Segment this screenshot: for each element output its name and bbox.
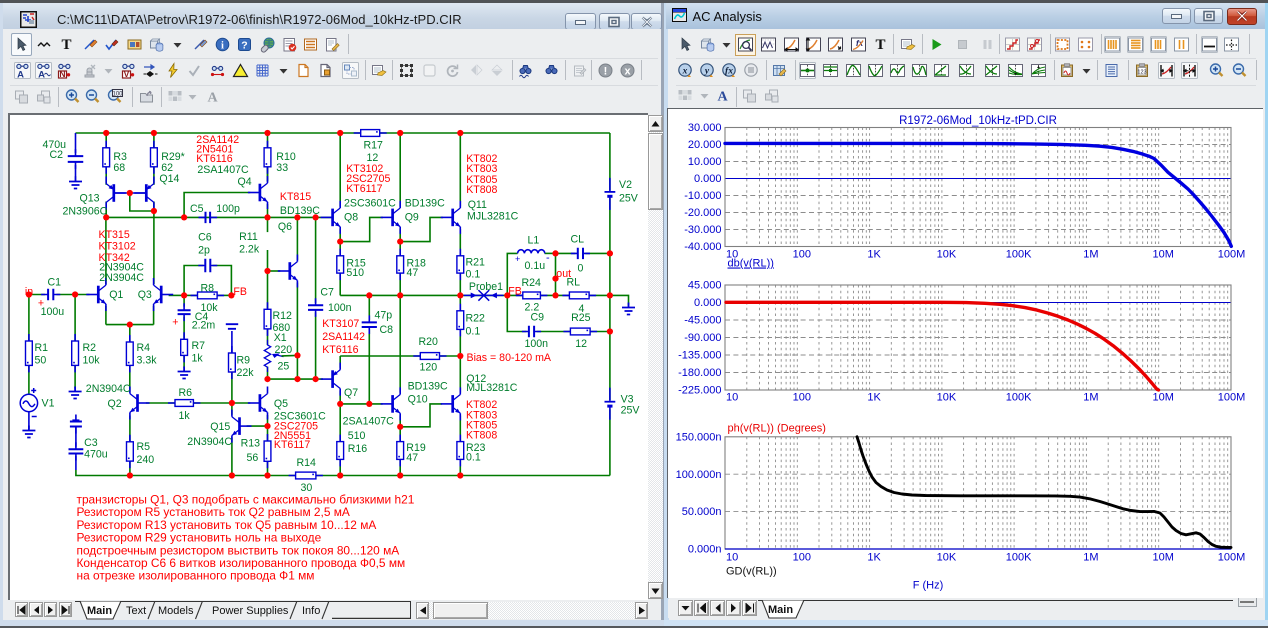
svg-text:0.1: 0.1 xyxy=(465,325,480,337)
svg-text:25V: 25V xyxy=(619,192,639,204)
junction dot (315.1,379.1) xyxy=(312,376,318,382)
wire C8 column xyxy=(368,295,370,320)
svg-text:0.1: 0.1 xyxy=(465,268,480,280)
svg-text:KT6117: KT6117 xyxy=(273,439,309,451)
svg-text:2.2k: 2.2k xyxy=(239,243,260,255)
junction dot (231.4,403) xyxy=(228,400,234,406)
junction dot (459.8,133) xyxy=(457,130,463,136)
transistor Q4 xyxy=(247,176,267,209)
wire bus node-379 xyxy=(267,378,323,380)
svg-text:47p: 47p xyxy=(374,309,392,321)
wire Q14 collector / Q3 collector column xyxy=(152,202,154,285)
junction dot (459.8,356) xyxy=(457,353,463,359)
junction dot (339.7,241.6) xyxy=(337,239,343,245)
junction dot (267,271) xyxy=(264,268,270,274)
svg-text:R14: R14 xyxy=(296,457,316,469)
svg-text:Probe1: Probe1 xyxy=(468,281,502,293)
svg-text:Q10: Q10 xyxy=(407,393,427,405)
svg-text:A: A xyxy=(17,69,24,79)
svg-text:+: + xyxy=(515,254,520,264)
svg-text:10K: 10K xyxy=(937,392,957,404)
svg-text:R24: R24 xyxy=(521,277,541,289)
capacitor C5 xyxy=(198,212,217,223)
svg-text:V2: V2 xyxy=(619,179,632,191)
capacitor C9 xyxy=(521,326,540,337)
wire C3 branch xyxy=(74,426,76,447)
capacitor C1 xyxy=(41,289,60,300)
svg-text:2SA1407C: 2SA1407C xyxy=(342,415,394,427)
svg-text:V: V xyxy=(124,69,130,79)
wire bottom rail xyxy=(75,470,609,476)
svg-text:X1: X1 xyxy=(273,332,286,344)
junction dot (231.4,475.5) xyxy=(228,472,234,478)
svg-text:100p: 100p xyxy=(216,203,240,215)
wire X1 bottom drop xyxy=(266,367,268,380)
svg-text:KT808: KT808 xyxy=(466,184,497,196)
svg-text:10K: 10K xyxy=(937,249,957,261)
wire R15 bottom xyxy=(339,273,341,295)
svg-text:50.000n: 50.000n xyxy=(682,506,722,518)
wire Q11 collector column xyxy=(459,133,461,206)
wire R2 column xyxy=(74,295,76,342)
svg-text:25V: 25V xyxy=(620,404,640,416)
svg-text:100M: 100M xyxy=(1218,552,1246,564)
svg-text:BD139C: BD139C xyxy=(404,197,444,209)
svg-text:R22: R22 xyxy=(465,312,485,324)
wire Q7 emitter riser xyxy=(339,356,341,368)
wire Q6 emitter to X1 wiper xyxy=(296,283,298,380)
svg-text:N: N xyxy=(60,69,66,79)
svg-text:2p: 2p xyxy=(198,244,210,256)
wire Q15 emitter drop xyxy=(230,438,232,476)
svg-text:1K: 1K xyxy=(867,552,881,564)
junction dot (368.8,403.9) xyxy=(366,401,372,407)
junction dot (183.6,295.4) xyxy=(181,292,187,298)
svg-text:KT3107: KT3107 xyxy=(322,318,359,330)
wire R10 column xyxy=(266,133,268,182)
wire Q12 emitter to R23 xyxy=(459,416,461,442)
svg-text:Q7: Q7 xyxy=(344,387,358,399)
svg-text:0.000: 0.000 xyxy=(694,173,722,185)
gain curve xyxy=(725,143,1231,246)
svg-text:100: 100 xyxy=(793,392,811,404)
resistor R5 xyxy=(126,435,133,468)
junction dot (153.4,211) xyxy=(150,208,156,214)
svg-text:x: x xyxy=(625,65,632,77)
transistor Q13 xyxy=(106,177,126,210)
wire Q1 emitter drop xyxy=(104,306,106,325)
svg-text:2N3906C: 2N3906C xyxy=(62,205,107,217)
resistor R25 xyxy=(563,328,597,335)
svg-text:KT6117: KT6117 xyxy=(346,183,382,195)
transistor Q11 xyxy=(440,201,460,234)
svg-text:100M: 100M xyxy=(1218,249,1246,261)
resistor R17 xyxy=(353,130,386,137)
svg-text:47: 47 xyxy=(406,452,418,464)
potentiometer X1 xyxy=(264,340,283,372)
svg-text:Q13: Q13 xyxy=(79,192,99,204)
svg-text:CL: CL xyxy=(570,233,584,245)
wire to right ground xyxy=(609,295,628,305)
svg-text:in: in xyxy=(24,286,32,298)
transistor Q15 xyxy=(231,410,251,443)
wire R9 column xyxy=(230,331,232,353)
wire CL row xyxy=(555,252,575,254)
svg-text:FB: FB xyxy=(508,285,522,297)
svg-text:2.2m: 2.2m xyxy=(191,319,215,331)
svg-text:20.000: 20.000 xyxy=(688,139,722,151)
wire Q9 emitter to R18 xyxy=(399,229,401,256)
svg-text:10: 10 xyxy=(726,552,738,564)
wire Q13 collector drop xyxy=(105,202,107,218)
svg-text:на отрезке изолированного пров: на отрезке изолированного провода Ф1 мм xyxy=(76,569,314,583)
wire Q11 emitter to R21 xyxy=(459,229,461,256)
svg-text:?: ? xyxy=(242,40,248,52)
svg-text:i: i xyxy=(221,40,224,51)
svg-text:-40.000: -40.000 xyxy=(684,241,721,253)
junction dot (459.8,295.4) xyxy=(457,292,463,298)
wire Q7 collector drop xyxy=(339,391,341,404)
svg-text:R4: R4 xyxy=(136,342,150,354)
svg-text:Q9: Q9 xyxy=(404,211,418,223)
svg-text:100K: 100K xyxy=(1006,249,1032,261)
svg-text:100: 100 xyxy=(793,249,811,261)
svg-text:100u: 100u xyxy=(40,306,64,318)
capacitor C4 xyxy=(177,303,190,321)
transistor Q1 xyxy=(86,278,106,311)
wire L1 branch xyxy=(507,253,517,295)
wire C4-R7 column xyxy=(183,295,185,306)
svg-text:ph(v(RL)) (Degrees): ph(v(RL)) (Degrees) xyxy=(728,423,826,435)
svg-text:Q1: Q1 xyxy=(109,289,123,301)
svg-text:50: 50 xyxy=(34,354,46,366)
wire R21-R22 column / Q12 collector xyxy=(459,273,461,311)
svg-text:Q3: Q3 xyxy=(137,289,151,301)
wire R18 bottom / Q10 collector column xyxy=(399,273,401,393)
svg-text:Q4: Q4 xyxy=(237,176,251,188)
resistor R29 xyxy=(150,141,157,174)
wire R8 row right xyxy=(217,294,231,296)
wire Q2 base to R6 xyxy=(145,402,174,404)
svg-text:0.1: 0.1 xyxy=(466,451,481,463)
wire Q9 collector column xyxy=(399,133,401,206)
resistor R23 xyxy=(456,435,463,467)
wire emitter tail bus xyxy=(105,324,153,326)
wire R8 row left xyxy=(184,294,197,296)
svg-text:C2: C2 xyxy=(49,149,63,161)
svg-text:-30.000: -30.000 xyxy=(684,224,721,236)
svg-text:L1: L1 xyxy=(527,234,539,246)
junction dot (339.7,403.9) xyxy=(337,401,343,407)
svg-text:Bias = 80-120 mA: Bias = 80-120 mA xyxy=(466,352,551,364)
svg-text:25: 25 xyxy=(277,360,289,372)
svg-text:A: A xyxy=(208,91,219,106)
ground right of RL xyxy=(622,303,635,315)
resistor R14 xyxy=(288,472,322,479)
svg-text:KT3102: KT3102 xyxy=(98,240,135,252)
svg-text:2SA1142: 2SA1142 xyxy=(322,331,365,343)
wire R4 column xyxy=(128,325,130,342)
junction dot (297,355.4) xyxy=(294,352,300,358)
wire Q3 emitter drop xyxy=(152,306,154,325)
svg-text:KT808: KT808 xyxy=(466,430,497,442)
wire R3 column xyxy=(105,133,107,185)
svg-text:-20.000: -20.000 xyxy=(684,207,721,219)
svg-text:Q14: Q14 xyxy=(159,173,179,185)
animated probe Probe1 xyxy=(463,290,503,301)
svg-text:1M: 1M xyxy=(1083,249,1098,261)
ground below R7 xyxy=(177,367,190,379)
svg-text:db(v(RL)): db(v(RL)) xyxy=(728,258,774,270)
wire C1 to Q1 base xyxy=(56,294,89,296)
svg-text:0.000n: 0.000n xyxy=(688,544,722,556)
svg-text:0.000: 0.000 xyxy=(694,297,722,309)
svg-text:1k: 1k xyxy=(178,410,190,422)
svg-text:470u: 470u xyxy=(84,448,108,460)
junction dot (399.7,241.6) xyxy=(397,239,403,245)
wire C7 column xyxy=(314,217,316,303)
inductor L1 xyxy=(517,250,544,254)
symbol above R9 xyxy=(225,324,237,329)
junction dot (399.7,475.5) xyxy=(397,472,403,478)
svg-text:30.000: 30.000 xyxy=(688,122,722,134)
svg-text:-180.000: -180.000 xyxy=(678,367,721,379)
ground below V1 xyxy=(22,426,35,438)
svg-text:22k: 22k xyxy=(236,367,254,379)
junction dot (297,379.1) xyxy=(294,376,300,382)
wire C5 to Q4 base xyxy=(184,193,250,218)
resistor R22 xyxy=(456,304,463,337)
junction dot (105.7,133) xyxy=(103,130,109,136)
svg-text:R8: R8 xyxy=(200,282,214,294)
wire Q1 collector riser xyxy=(104,217,106,284)
resistor R19 xyxy=(396,435,403,467)
svg-text:C5: C5 xyxy=(190,203,204,215)
svg-text:C1: C1 xyxy=(47,276,61,288)
svg-text:R21: R21 xyxy=(465,256,485,268)
svg-text:-10.000: -10.000 xyxy=(684,190,721,202)
junction dot (609.4,331.5) xyxy=(606,328,612,334)
svg-text:GD(v(RL)): GD(v(RL)) xyxy=(726,566,777,578)
svg-text:2N3904C: 2N3904C xyxy=(85,383,130,395)
junction dot (129.3,193) xyxy=(126,190,132,196)
resistor R2 xyxy=(71,334,78,372)
svg-text:100K: 100K xyxy=(1006,552,1032,564)
svg-text:1K: 1K xyxy=(867,392,881,404)
ground xyxy=(69,177,82,189)
svg-text:100n: 100n xyxy=(328,302,352,314)
svg-text:C6: C6 xyxy=(198,231,212,243)
svg-text:C9: C9 xyxy=(530,311,544,323)
svg-text:R7: R7 xyxy=(191,340,205,352)
junction dot (105.7,217.4) xyxy=(103,214,109,220)
wire R16 column xyxy=(339,404,341,442)
svg-text:120: 120 xyxy=(419,361,437,373)
svg-text:A: A xyxy=(38,69,45,79)
wire C9 loop xyxy=(507,295,526,331)
junction dot (339.7,133) xyxy=(337,130,343,136)
svg-text:y: y xyxy=(704,66,710,76)
junction dot (555,278.6) xyxy=(552,276,558,282)
svg-text:0.1u: 0.1u xyxy=(524,260,545,272)
resistor R1 xyxy=(25,334,32,372)
battery V3 xyxy=(604,388,615,420)
junction dot (129.3,324.6) xyxy=(126,322,132,328)
svg-text:BD139C: BD139C xyxy=(407,380,447,392)
svg-text:R16: R16 xyxy=(347,443,367,455)
svg-text:510: 510 xyxy=(346,267,364,279)
svg-text:Q15: Q15 xyxy=(210,421,230,433)
svg-text:R5: R5 xyxy=(136,441,150,453)
svg-text:2N3904C: 2N3904C xyxy=(99,272,144,284)
battery V2 xyxy=(604,178,615,210)
junction dot (368.8,295.4) xyxy=(366,292,372,298)
svg-text:R12: R12 xyxy=(272,310,292,322)
resistor R4 xyxy=(126,335,133,372)
wire R12 column xyxy=(266,271,268,309)
svg-text:510: 510 xyxy=(347,430,365,442)
svg-text:10: 10 xyxy=(726,392,738,404)
junction dot (267,379.1) xyxy=(264,376,270,382)
svg-text:KT6116: KT6116 xyxy=(322,344,358,356)
wire R23 bottom xyxy=(459,459,461,475)
svg-text:R1: R1 xyxy=(34,342,48,354)
svg-text:150.000n: 150.000n xyxy=(676,431,722,443)
resistor R24 xyxy=(515,292,547,299)
junction dot (609.4,295.4) xyxy=(606,292,612,298)
junction dot (399.7,426.8) xyxy=(397,424,403,430)
capacitor CL xyxy=(570,248,589,259)
svg-text:100n: 100n xyxy=(524,338,548,350)
junction dot (555,295.4) xyxy=(552,292,558,298)
junction dot (506.8,295.4) xyxy=(504,292,510,298)
wire R5 column xyxy=(128,416,130,442)
wire Q15 collector riser xyxy=(230,403,232,415)
svg-text:10M: 10M xyxy=(1152,552,1173,564)
svg-text:100: 100 xyxy=(793,552,811,564)
transistor Q10 xyxy=(380,387,400,420)
svg-text:MJL3281C: MJL3281C xyxy=(466,382,518,394)
wire Q15 base link xyxy=(246,425,267,427)
transistor Q6 xyxy=(277,255,297,288)
svg-text:-225.000: -225.000 xyxy=(678,385,721,397)
svg-text:47: 47 xyxy=(406,267,418,279)
transistor Q7 xyxy=(320,363,340,396)
capacitor C8 xyxy=(361,315,376,334)
capacitor C6 xyxy=(198,259,217,273)
wire bus node-217 xyxy=(106,216,331,218)
group delay curve xyxy=(857,437,1231,548)
svg-text:MJL3281C: MJL3281C xyxy=(467,210,519,222)
ground below R2 xyxy=(68,387,81,399)
svg-text:FB: FB xyxy=(233,286,247,298)
capacitor C2 xyxy=(67,149,83,169)
wire C6 loop xyxy=(184,266,203,296)
transistor Q2 xyxy=(129,387,149,420)
svg-text:R25: R25 xyxy=(571,312,591,324)
svg-text:Q5: Q5 xyxy=(273,398,287,410)
svg-text:R1972-06Mod_10kHz-tPD.CIR: R1972-06Mod_10kHz-tPD.CIR xyxy=(899,115,1057,127)
junction dot (399.7,295.4) xyxy=(397,292,403,298)
wire Q5 emitter drop xyxy=(266,415,268,426)
svg-text:Q6: Q6 xyxy=(277,221,291,233)
svg-text:2N3904C: 2N3904C xyxy=(187,436,232,448)
svg-text:-45.000: -45.000 xyxy=(684,315,721,327)
svg-text:fx: fx xyxy=(725,66,733,76)
wire in node to C1 xyxy=(28,294,44,296)
svg-text:R20: R20 xyxy=(418,336,438,348)
svg-text:10.000: 10.000 xyxy=(688,156,722,168)
junction dot (267,475.5) xyxy=(264,472,270,478)
svg-text:0: 0 xyxy=(577,262,583,274)
svg-text:A: A xyxy=(718,90,729,105)
wire Q10-Q12 coupling xyxy=(400,404,442,427)
svg-text:KT815: KT815 xyxy=(279,191,310,203)
phase curve xyxy=(726,302,1159,390)
svg-text:1k: 1k xyxy=(191,352,203,364)
wire R19 bottom xyxy=(399,459,401,475)
wire Q3 base link xyxy=(168,294,184,296)
svg-text:2SC3601C: 2SC3601C xyxy=(344,197,396,209)
capacitor C3 top mark xyxy=(69,415,81,434)
svg-text:Q8: Q8 xyxy=(344,211,358,223)
capacitor C7 xyxy=(308,298,323,317)
svg-text:12: 12 xyxy=(575,338,587,350)
junction dot (267,426.1) xyxy=(264,423,270,429)
wire Q6 base stub xyxy=(267,270,280,272)
svg-text:BD139C: BD139C xyxy=(279,205,319,217)
svg-text:-135.000: -135.000 xyxy=(678,350,721,362)
svg-text:x: x xyxy=(682,66,688,76)
wire V1 to ground xyxy=(27,412,29,429)
svg-text:Q2: Q2 xyxy=(107,398,121,410)
resistor R13 xyxy=(264,434,271,468)
capacitor C3 xyxy=(68,442,83,460)
transistor Q5 xyxy=(247,387,267,420)
svg-text:-90.000: -90.000 xyxy=(684,332,721,344)
wire Q9-Q11 coupling xyxy=(400,217,443,241)
svg-text:240: 240 xyxy=(136,454,154,466)
resistor R21 xyxy=(456,249,463,280)
resistor R20 xyxy=(413,353,446,360)
wire Q8 emitter to R15 xyxy=(339,229,341,256)
junction dot (230.9,295.4) xyxy=(228,292,234,298)
svg-text:56: 56 xyxy=(246,452,258,464)
junction dot (129.4,475.5) xyxy=(126,472,132,478)
svg-text:C7: C7 xyxy=(320,286,334,298)
junction dot (555,253.4) xyxy=(552,250,558,256)
wire R11 column xyxy=(266,217,268,232)
svg-text:100: 100 xyxy=(112,91,123,97)
svg-text:10K: 10K xyxy=(937,552,957,564)
svg-text:10M: 10M xyxy=(1152,249,1173,261)
svg-text:123: 123 xyxy=(1138,69,1147,75)
svg-text:R17: R17 xyxy=(363,139,383,151)
junction dot (459.8,475.5) xyxy=(457,472,463,478)
resistor R15 xyxy=(336,249,343,280)
transistor Q14 xyxy=(134,177,154,210)
resistor R16 xyxy=(336,435,343,467)
panel1 grid xyxy=(747,128,1228,247)
svg-text:KT315: KT315 xyxy=(98,229,129,241)
junction dot (153.4,133) xyxy=(150,130,156,136)
svg-text:R11: R11 xyxy=(239,231,258,243)
svg-text:R9: R9 xyxy=(236,354,250,366)
junction dot (267,217.4) xyxy=(264,214,270,220)
transistor Q8 xyxy=(320,201,340,234)
svg-text:100K: 100K xyxy=(1006,392,1032,404)
svg-text:100.000n: 100.000n xyxy=(676,469,722,481)
